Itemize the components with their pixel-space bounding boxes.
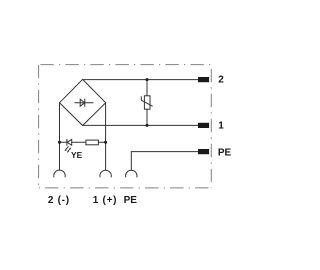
svg-text:YE: YE (71, 150, 83, 160)
junction dot LED row left (58, 141, 61, 144)
diode inside bridge (75, 99, 94, 107)
svg-text:PE: PE (218, 147, 232, 158)
wire left vertical (net 2-) (59, 103, 61, 171)
wire PE (vertical + horizontal to terminal) (131, 152, 198, 171)
socket contact 2(-) (54, 170, 65, 177)
LED (YE) symbol (67, 139, 72, 146)
wire net 1 (middle horizontal) (83, 124, 198, 126)
wire varistor branch (146, 80, 148, 126)
LED emission arrow 2 (67, 148, 71, 153)
socket contact 1(+) (100, 170, 111, 177)
svg-text:2 (-): 2 (-) (48, 195, 70, 206)
svg-text:1 (+): 1 (+) (93, 195, 117, 206)
wire LED row (60, 141, 106, 143)
terminal pad PE (198, 149, 209, 154)
wire net 2 (top horizontal) (83, 79, 198, 81)
svg-text:2: 2 (218, 75, 224, 86)
junction dot varistor top (146, 78, 149, 81)
svg-text:PE: PE (124, 195, 138, 206)
bridge rectifier outline (60, 79, 106, 125)
varistor U1 body (144, 96, 150, 109)
socket contact PE (126, 170, 137, 177)
wire right vertical (net 1+) (105, 103, 107, 171)
resistor R1 body (86, 140, 99, 145)
LED emission arrow 1 (65, 146, 69, 151)
svg-text:1: 1 (218, 121, 224, 132)
junction dot LED row right (104, 141, 107, 144)
varistor U1 diagonal stroke (141, 96, 152, 106)
junction dot varistor bottom (146, 124, 149, 127)
terminal pad 2 (198, 77, 209, 82)
terminal pad 1 (198, 123, 209, 128)
enclosure boundary (dash-dot outline) (39, 65, 212, 188)
